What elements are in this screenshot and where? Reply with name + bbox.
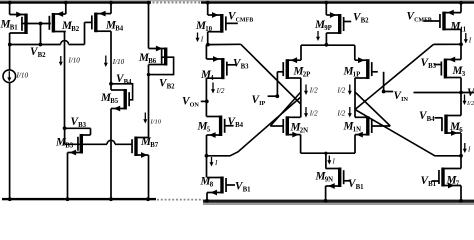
transistor MB3 (NMOS, diode-connected) [80,134,83,154]
wire MB1 gate to MB2 gate [22,23,51,25]
svg-text:B3: B3 [241,64,250,71]
wire hop over MB2 drain [61,41,69,45]
junction dot VB2 node [8,43,12,47]
wire MB6 gate-drain loop [149,57,174,74]
svg-text:8: 8 [210,182,214,189]
node VB2 wire left part [10,44,61,46]
svg-text:7: 7 [456,181,460,188]
svg-text:ON: ON [190,102,200,109]
transistor M5 (NMOS cascode) [219,116,222,137]
svg-text:I/10: I/10 [112,58,125,66]
wire MB7 source to VSS [148,155,150,200]
junction dot gate riser at VB2 node [39,43,43,47]
svg-text:CMFB: CMFB [236,18,254,24]
transistor M1P (PMOS pair) [366,59,369,79]
VDD rail dashed link between bias and amplifier [153,2,202,4]
transistor M2P (PMOS pair) [286,59,289,79]
svg-text:I/10: I/10 [68,57,81,65]
VSS rail (bias section) [2,198,156,200]
wire M8 source to VSS [206,193,208,201]
svg-text:I/2: I/2 [309,110,318,118]
junction dot MB5 source at VSS [109,197,113,201]
junction dot M11 source at VDD [459,1,463,5]
svg-text:B4: B4 [115,26,124,33]
svg-text:I/2: I/2 [337,110,346,118]
current arrow M2P [305,85,307,92]
transistor MB1 (PMOS, diode-connected) [24,14,27,35]
svg-text:2N: 2N [300,128,308,135]
wire MB4 drain down to VB4 node [110,31,112,90]
current arrow MB6-MB7 branch [144,113,146,121]
node VB3 wire [65,127,91,129]
junction dot node B1 [459,42,463,46]
node VON dot [205,100,209,104]
wire VIN up to M1P gate [383,72,385,92]
current arrow MB4 branch [105,56,107,64]
wire MB5 source to VSS [110,109,112,200]
wire MB1 source to VDD [9,3,11,15]
junction dot VB3 node [63,126,67,130]
svg-text:10: 10 [205,26,212,33]
diagonal wire node B1 to right leg [355,44,434,109]
svg-text:I/2: I/2 [337,87,346,95]
wire NMOS tail down to M9N [325,153,327,168]
transistor M1N (NMOS pair) [366,116,369,135]
junction dot left lower node [205,154,209,158]
current arrow M9P [317,31,319,38]
junction dot MB3 source at VSS [66,197,70,201]
wire tail to M1P source [354,45,356,60]
svg-text:9P: 9P [324,25,332,32]
junction dot M10 source at VDD [206,1,210,5]
current arrow M2N [305,107,307,114]
wire M3 drain down to VOP [460,78,462,116]
wire MB3 source to VSS [67,153,69,200]
wire MB4 drain to MB5 node VB4 [109,82,113,86]
svg-text:B1: B1 [10,25,19,32]
current arrow into M7 [464,143,466,150]
svg-text:V: V [467,87,474,99]
wire M1N gate diode connection to right leg [355,92,390,126]
wire MB4 source to VDD [110,3,112,14]
junction dot M8 source at VSS [205,199,209,203]
wire MB4 gate lead [85,21,93,23]
svg-text:5: 5 [207,127,211,134]
svg-text:B4: B4 [235,122,244,129]
wire VIP lead [268,95,278,97]
VSS rail (amplifier section) [203,200,474,203]
wire MB6 drain down to MB7 drain [148,65,150,138]
current arrow M9N tail [328,156,330,162]
svg-text:B2: B2 [38,52,47,59]
svg-text:B3: B3 [78,122,87,129]
current arrow M11 branch [465,33,467,40]
wire M7 source to VSS [460,186,462,201]
wire M4 drain down to VON [205,78,207,116]
transistor MB7 (NMOS) [134,137,137,157]
wire current source to VSS [9,82,11,199]
svg-text:B3: B3 [428,63,437,70]
transistor MB6 (PMOS, diode-connected) [164,48,167,66]
transistor MB2 (PMOS) [52,13,55,33]
wire tail to M2P source [300,45,302,60]
wire M5 drain down [206,135,208,178]
svg-text:4: 4 [210,75,214,82]
node VOP wire [414,92,474,94]
junction dot node A1 [206,43,210,47]
svg-text:CMFB: CMFB [414,18,432,24]
junction dot MB4 source at VDD [109,1,113,5]
svg-text:1N: 1N [353,127,361,134]
transistor M7 (NMOS) [441,168,444,187]
svg-text:I/10: I/10 [150,119,162,126]
wire NMOS tail horizontal [301,152,355,154]
VSS rail dashed link between bias and amplifier [157,199,203,201]
wire M11 drain to right node B1 [460,29,462,59]
svg-text:1P: 1P [353,72,361,79]
svg-text:I: I [200,36,204,44]
junction dot M9N source at VSS [324,199,328,203]
current arrow M10 branch [197,33,199,39]
current arrow M1P [349,85,351,92]
svg-text:B7: B7 [150,142,159,149]
VDD rail (bias section) [0,1,151,3]
current arrow M3 branch [464,95,466,102]
transistor MB5 (NMOS, diode-connected) [124,89,127,110]
wire M9N source to VSS [325,186,327,201]
junction dot current source at VSS [8,197,12,201]
wire MB2 drain down to VB3 node [64,32,66,129]
node VB2 wire right part [69,44,85,46]
svg-text:IN: IN [401,96,408,103]
junction dot M7 source at VSS [459,199,463,203]
transistor M3 (PMOS cascode) [444,59,447,79]
svg-text:9N: 9N [325,177,333,184]
svg-text:B4: B4 [124,79,133,86]
transistor MB4 (PMOS) [94,13,97,33]
junction dot VIN [382,90,386,94]
transistor M9N (NMOS tail) [338,168,341,188]
svg-text:B1: B1 [428,181,437,188]
svg-text:B2: B2 [167,84,176,91]
wire M2N source down [300,135,302,154]
wire M11 source to VDD [460,3,462,13]
svg-text:B5: B5 [110,98,119,105]
svg-text:2P: 2P [303,72,311,79]
wire MB2 source to VDD [65,3,67,15]
svg-text:B2: B2 [71,26,80,33]
svg-text:I: I [214,159,218,167]
wire M6 drain down [460,133,462,169]
wire M9P source to VDD [325,3,327,16]
wire M10 drain to node A1 [207,32,209,45]
svg-text:B1: B1 [243,187,252,194]
transistor M9P (PMOS tail) [338,14,341,34]
junction dot NMOS tail [324,152,327,155]
wire hop over MB5 source [107,140,115,144]
junction dot VIP [275,94,279,98]
svg-text:I/10: I/10 [16,72,29,80]
svg-text:B4: B4 [427,116,436,123]
diagonal wire left leg to lower-left node [207,97,300,156]
wire VIP up to M2P gate [276,72,278,96]
junction dot right lower node [459,154,463,158]
wire VIN lead [384,91,394,93]
wire MB3-MB7 gate line right part [115,143,132,145]
wire node A1 horizontal [208,43,241,45]
wire left leg (M2P drain to M2N drain) [300,78,302,117]
svg-text:I/2: I/2 [466,100,474,107]
wire MB1 drain down to VB2 node [9,33,11,45]
wire MB5 gate-drain loop [111,84,133,100]
current source internal arrow [8,71,10,78]
wire right leg (M1P drain to M1N drain) [354,78,356,117]
transistor M4 (PMOS cascode) [221,58,224,79]
junction dot MB6 source at VDD [147,1,151,5]
transistor M8 (NMOS) [220,177,223,194]
current source I/10 circle [3,70,16,83]
wire MB3-MB7 gate line left part [65,143,107,145]
diagonal wire right leg to lower-right node [355,110,461,156]
wire M10 source to VDD [207,3,209,16]
wire VB2 node down to current source [9,45,11,71]
junction dot MB6 drain loop [147,73,150,76]
transistor M6 (NMOS cascode) [444,115,447,135]
svg-text:IP: IP [259,100,265,107]
transistor M11 (PMOS) [442,12,445,31]
VSS rail gray fringe [203,203,474,205]
wire M1N source down [354,135,356,154]
VDD rail gray fringe [0,0,474,1]
junction dot VOP node [459,91,463,95]
junction dot PMOS tail node [325,43,329,47]
wire MB3 drain riser [90,128,92,135]
svg-text:B6: B6 [148,58,157,65]
svg-text:I: I [468,37,472,45]
current arrow MB2 branch [60,56,62,63]
wire VON lead [201,100,207,102]
wire node B1 horizontal [434,43,462,45]
diagonal wire node A1 to left leg [241,44,301,104]
svg-text:B1: B1 [356,184,365,191]
transistor M2N (NMOS pair) [286,116,289,135]
current arrow M4 branch [212,83,214,91]
VDD rail (amplifier section) [201,1,474,3]
junction dot on gate line [39,22,43,26]
svg-text:I/2: I/2 [216,87,225,95]
transistor M10 (PMOS) [220,14,223,33]
wire MB6 source to VDD [148,3,150,49]
svg-text:I/2: I/2 [309,87,318,95]
current arrow into M8 [211,157,213,163]
current arrow M1N [349,107,351,114]
wire gate line down to VB2 node [40,24,42,45]
junction dot MB1 source at VDD [8,1,12,5]
wire PMOS tail horizontal [301,44,355,46]
svg-text:B2: B2 [361,18,370,25]
junction dot MB7 source at VSS [146,197,150,201]
svg-text:3: 3 [462,71,466,78]
svg-text:6: 6 [459,127,463,134]
wire M2N gate diode connection to left leg [270,92,301,126]
junction dot M9P source at VDD [324,1,328,5]
wire M4 source riser to node A1 [205,45,207,59]
wire MB4 gate riser to VB2 node [84,22,86,44]
wire VB3 node down to gate line [64,128,66,144]
junction dot MB2 source at VDD [64,1,68,5]
wire M9P drain to tail node [325,33,327,45]
